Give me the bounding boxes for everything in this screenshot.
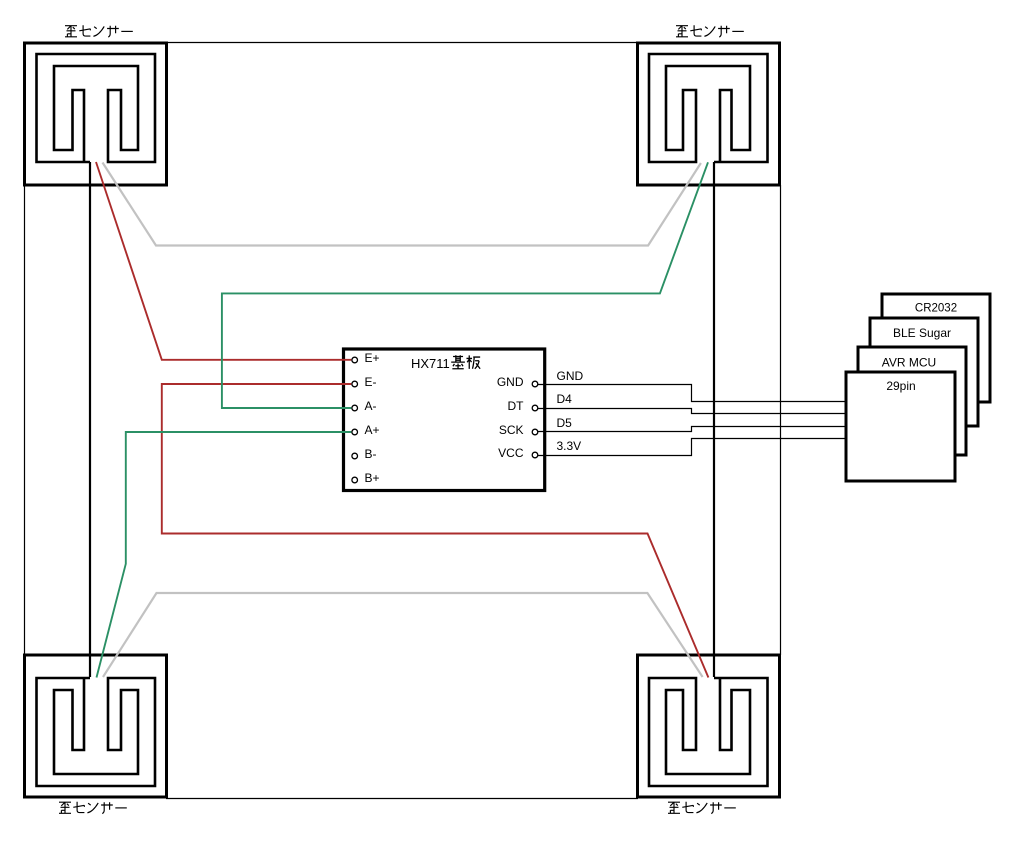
svg-text:HX711: HX711 [411, 356, 450, 371]
svg-text:BLE Sugar: BLE Sugar [893, 326, 951, 340]
svg-text:AVR MCU: AVR MCU [882, 356, 936, 370]
svg-text:DT: DT [508, 399, 525, 413]
svg-text:29pin: 29pin [886, 379, 915, 393]
svg-text:E+: E+ [365, 351, 380, 365]
svg-text:SCK: SCK [499, 423, 524, 437]
svg-text:A+: A+ [365, 423, 380, 437]
svg-text:GND: GND [557, 369, 584, 383]
svg-text:CR2032: CR2032 [915, 303, 957, 315]
svg-text:A-: A- [365, 399, 377, 413]
svg-text:D4: D4 [557, 392, 573, 406]
svg-text:GND: GND [497, 375, 524, 389]
svg-text:D5: D5 [557, 416, 573, 430]
svg-text:E-: E- [365, 375, 377, 389]
svg-text:B-: B- [365, 447, 377, 461]
svg-text:VCC: VCC [498, 446, 524, 460]
svg-text:B+: B+ [365, 471, 380, 485]
svg-text:3.3V: 3.3V [557, 439, 582, 453]
